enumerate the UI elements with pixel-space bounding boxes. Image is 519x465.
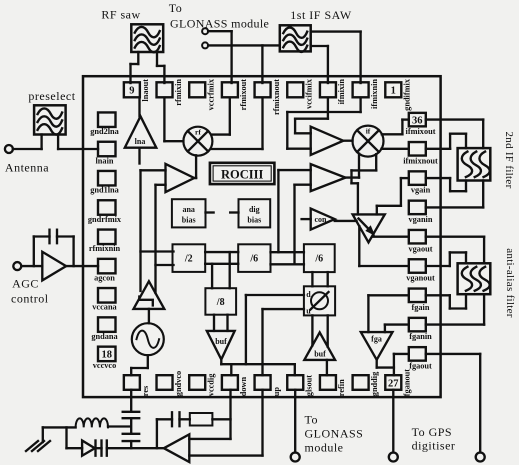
svg-text:gnddig: gnddig [370, 371, 379, 396]
svg-text:vgain: vgain [411, 186, 431, 195]
svg-text:refin: refin [337, 379, 346, 396]
svg-text:d: d [306, 290, 311, 299]
svg-text:ana: ana [182, 205, 194, 214]
svg-text:1st IF SAW: 1st IF SAW [290, 8, 352, 22]
svg-text:gndrfmix: gndrfmix [88, 215, 122, 224]
svg-text:gnd2lna: gnd2lna [90, 127, 119, 136]
svg-text:18: 18 [101, 350, 112, 361]
svg-text:ifmixnin: ifmixnin [370, 79, 379, 109]
svg-text:vccana: vccana [92, 303, 117, 312]
svg-text:rfmixin: rfmixin [174, 79, 183, 106]
svg-text:9: 9 [129, 86, 134, 97]
svg-text:vganin: vganin [409, 215, 433, 224]
svg-text:bias: bias [247, 216, 261, 225]
svg-text:vccvco: vccvco [93, 361, 117, 370]
svg-text:vccifmix: vccifmix [305, 78, 314, 109]
svg-text:agcon: agcon [94, 273, 115, 282]
svg-text:36: 36 [412, 115, 423, 126]
svg-text:/6: /6 [314, 254, 323, 265]
svg-text:lnaout: lnaout [141, 79, 150, 102]
svg-text:control: control [11, 292, 49, 306]
svg-text:To: To [305, 413, 319, 427]
svg-text:ifmixout: ifmixout [406, 127, 436, 136]
svg-text:down: down [239, 376, 248, 396]
svg-text:vganout: vganout [406, 274, 435, 283]
svg-text:To GPS: To GPS [412, 425, 453, 439]
svg-text:digitiser: digitiser [412, 439, 456, 453]
svg-text:lna: lna [135, 137, 146, 146]
svg-text:bias: bias [182, 216, 196, 225]
svg-text:gndvco: gndvco [174, 371, 183, 396]
svg-text:fgaout: fgaout [409, 362, 432, 371]
svg-text:GLONASS module: GLONASS module [170, 17, 269, 31]
svg-text:fganin: fganin [409, 332, 432, 341]
svg-text:RF saw: RF saw [101, 8, 140, 22]
svg-text:anti-alias filter: anti-alias filter [504, 248, 516, 318]
svg-text:con: con [315, 215, 328, 224]
svg-text:GLONASS: GLONASS [305, 427, 364, 441]
svg-text:gndifmix: gndifmix [403, 78, 412, 111]
svg-text:up: up [272, 387, 281, 397]
svg-text:/2: /2 [184, 254, 193, 265]
svg-text:ifmixnout: ifmixnout [403, 156, 438, 165]
svg-text:vccdig: vccdig [207, 373, 216, 396]
svg-text:Antenna: Antenna [5, 161, 49, 175]
svg-text:/6: /6 [249, 254, 258, 265]
svg-text:buf: buf [314, 350, 326, 359]
svg-text:27: 27 [388, 379, 399, 390]
svg-text:gndana: gndana [91, 332, 118, 341]
svg-text:res: res [141, 385, 150, 396]
svg-text:rfmixnin: rfmixnin [89, 244, 121, 253]
svg-text:lnain: lnain [96, 156, 114, 165]
svg-text:ROCIII: ROCIII [221, 168, 264, 182]
svg-text:ifmixin: ifmixin [337, 79, 346, 105]
svg-text:gnd1lna: gnd1lna [90, 186, 119, 195]
svg-text:u: u [306, 307, 311, 316]
svg-text:To: To [169, 1, 183, 15]
svg-text:buf: buf [215, 337, 227, 346]
svg-text:fga: fga [371, 335, 382, 344]
svg-text:glsout: glsout [305, 375, 314, 396]
svg-text:rf: rf [195, 128, 201, 137]
svg-text:rfmixout: rfmixout [239, 79, 248, 111]
svg-text:fganout: fganout [403, 369, 412, 396]
svg-text:if: if [366, 127, 371, 136]
svg-text:2nd IF filter: 2nd IF filter [503, 131, 515, 188]
svg-text:preselect: preselect [28, 89, 75, 103]
svg-text:dig: dig [249, 205, 260, 214]
svg-text:1: 1 [391, 86, 396, 97]
svg-text:module: module [305, 441, 344, 455]
svg-text:vccrfmix: vccrfmix [207, 78, 216, 110]
svg-text:rfmixnout: rfmixnout [272, 79, 281, 115]
svg-text:vgaout: vgaout [409, 244, 433, 253]
svg-text:/8: /8 [216, 297, 225, 308]
svg-text:AGC: AGC [12, 277, 39, 291]
svg-text:fgain: fgain [412, 303, 430, 312]
